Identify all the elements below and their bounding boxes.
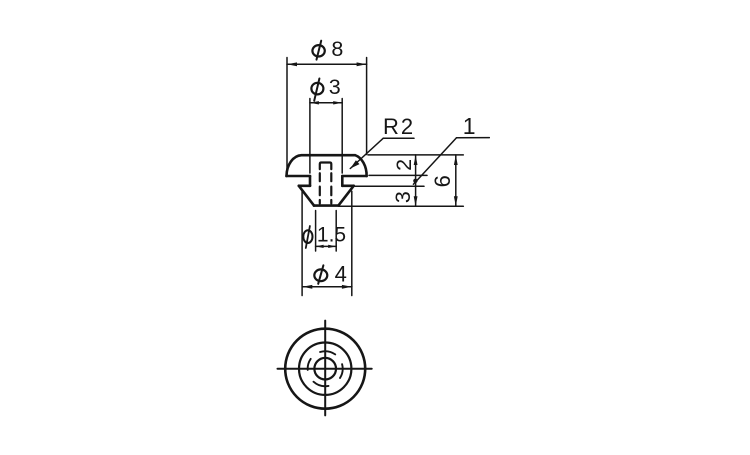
svg-text:2: 2 (392, 159, 416, 171)
arrow φ8 right (357, 62, 367, 66)
svg-text:4: 4 (335, 261, 347, 286)
arrow φ4 left (302, 285, 312, 289)
arrow φ3 left (310, 101, 319, 104)
bottom view outer circle φ8 (285, 329, 365, 409)
arrowhead R2 (350, 160, 359, 168)
svg-text:1: 1 (463, 113, 476, 139)
dimension line 6 (455, 155, 457, 206)
arrow down (3) (414, 196, 418, 206)
arrow down (6) (454, 196, 458, 206)
dimension text φ3 (311, 75, 340, 101)
arrow φ1.5 right (328, 245, 336, 248)
part outline: grommet cross-section (287, 155, 367, 205)
dimension text φ4 (314, 261, 347, 286)
dimension text φ1.5 (303, 223, 346, 248)
arrow φ8 left (287, 62, 297, 66)
bottom view circle φ4 (299, 343, 351, 395)
dimension text φ8 (312, 37, 343, 61)
arrow φ3 right (333, 101, 342, 104)
recess (hole top, solid) (320, 163, 332, 170)
svg-text:3: 3 (391, 191, 415, 203)
arrow φ4 right (342, 285, 352, 289)
bottom view hole circle φ1.5 (314, 358, 336, 380)
dot terminator (1) (413, 179, 417, 183)
centerline vertical (324, 321, 326, 416)
dimension line 2/1/3 (415, 155, 417, 206)
svg-text:R2: R2 (383, 114, 415, 139)
centerline horizontal (278, 368, 372, 370)
dimension line φ4 (302, 191, 352, 295)
svg-text:1.5: 1.5 (317, 223, 346, 246)
arrow up (2) (414, 155, 418, 165)
dimension line φ3 (310, 99, 342, 174)
arrow φ1.5 left (316, 245, 324, 248)
hidden hole line right (dashed) (330, 173, 332, 203)
bottom view hidden circle φ3 (dashed arcs) (308, 351, 343, 386)
svg-text:6: 6 (430, 175, 455, 187)
arrow up (6) (454, 155, 458, 165)
svg-text:3: 3 (329, 75, 341, 99)
extension lines right side (2,3,6 stack) (340, 155, 464, 206)
dimension line φ8 (287, 58, 367, 171)
hidden hole line left (dashed) (320, 173, 332, 203)
dimension line φ1.5 (316, 211, 337, 252)
svg-text:8: 8 (331, 37, 343, 61)
